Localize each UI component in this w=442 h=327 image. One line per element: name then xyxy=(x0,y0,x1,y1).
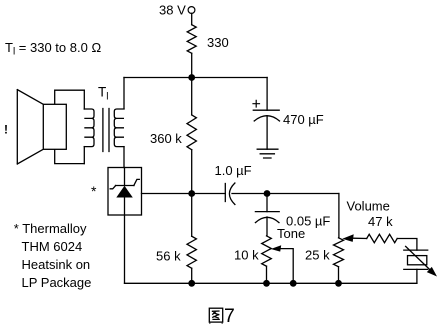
speaker cone xyxy=(17,90,43,164)
resistor 47k xyxy=(367,234,398,242)
zener diode D1 right wing xyxy=(134,179,140,185)
plus sign of C1 xyxy=(253,100,260,107)
wire C3 to tone pot xyxy=(266,217,268,236)
node rail tone pot xyxy=(263,280,270,287)
wire corner down to volume pot 25k xyxy=(338,194,340,238)
node mid junction xyxy=(188,190,195,197)
cartridge XTAL bottom plate xyxy=(404,268,428,270)
transformer T1 core xyxy=(103,109,109,152)
svg-text:Volume: Volume xyxy=(347,199,390,214)
amplifier package box U1 xyxy=(108,168,142,216)
wire 25k wiper to R47k xyxy=(353,237,367,239)
svg-text:LP Package: LP Package xyxy=(22,275,92,290)
transformer T1 secondary winding xyxy=(114,109,124,147)
svg-text:38 V: 38 V xyxy=(159,3,186,18)
cartridge arrowhead xyxy=(427,267,437,277)
wire down to C3 xyxy=(266,194,268,212)
resistor 56k xyxy=(187,236,196,268)
svg-text:Tl: Tl xyxy=(98,85,108,103)
svg-text:360 k: 360 k xyxy=(150,131,182,146)
wire C2 to node xyxy=(232,193,267,195)
svg-text:* Thermalloy: * Thermalloy xyxy=(14,221,87,236)
transformer T1 primary lead top xyxy=(83,90,85,109)
transformer T1 primary lead bottom xyxy=(83,147,85,164)
node rail volume pot xyxy=(335,280,342,287)
capacitor C2 1.0uF plate xyxy=(224,184,226,202)
node rail tone wiper xyxy=(290,280,297,287)
wire rail corner down to transformer secondary xyxy=(123,78,125,109)
svg-text:THM 6024: THM 6024 xyxy=(22,239,83,254)
wire node to volume corner xyxy=(267,193,339,195)
transformer T1 primary winding xyxy=(84,109,94,147)
cartridge variable arrow xyxy=(406,246,433,272)
wire terminal to R330 xyxy=(191,13,193,24)
wire loop speaker to transformer xyxy=(55,90,85,163)
node top junction xyxy=(188,74,195,81)
svg-text:Tone: Tone xyxy=(277,226,305,241)
wire mid line box to node xyxy=(142,193,192,195)
svg-text:330: 330 xyxy=(207,35,229,50)
svg-text:25 k: 25 k xyxy=(305,248,330,263)
capacitor C3 0.05uF plate xyxy=(255,211,279,213)
wire cartridge to rail xyxy=(416,269,418,283)
wire C1 to ground xyxy=(266,116,268,149)
speaker driver rectangle xyxy=(43,104,66,149)
wire mid node down to R56k xyxy=(191,194,193,237)
wire through box top xyxy=(124,168,126,186)
svg-text:56 k: 56 k xyxy=(156,249,181,264)
resistor 360k xyxy=(187,115,196,150)
wire R360k to mid node xyxy=(191,150,193,194)
wire node to R360k xyxy=(191,78,193,115)
potentiometer volume 25k xyxy=(334,238,344,267)
tone wiper arrowhead xyxy=(271,245,281,251)
volume wiper arrowhead xyxy=(342,234,353,242)
wire tone pot to rail xyxy=(266,266,268,283)
cartridge XTAL body xyxy=(408,256,427,265)
capacitor C2 1.0uF curved plate xyxy=(229,183,235,205)
zener diode D1 triangle xyxy=(116,186,133,198)
svg-text:!: ! xyxy=(4,123,8,137)
wire box bottom to ground rail xyxy=(124,198,126,284)
node 38V supply terminal xyxy=(188,7,195,14)
wire top rail xyxy=(124,77,267,79)
node after C2 xyxy=(264,190,271,197)
wire rail to C1 470uF xyxy=(266,78,268,111)
capacitor C3 0.05uF curved plate xyxy=(255,217,279,222)
ground symbol xyxy=(257,149,278,158)
resistor 330 xyxy=(187,25,196,54)
svg-text:1.0 µF: 1.0 µF xyxy=(215,163,252,178)
svg-text:10 k: 10 k xyxy=(234,248,259,263)
svg-text:*: * xyxy=(91,183,97,199)
svg-text:Tl = 330 to 8.0 Ω: Tl = 330 to 8.0 Ω xyxy=(5,40,101,58)
wire 25k to rail xyxy=(338,267,340,284)
zener diode D1 left wing xyxy=(110,186,116,189)
potentiometer tone 10k xyxy=(262,236,272,266)
svg-text:47 k: 47 k xyxy=(368,214,393,229)
zener diode D1 cathode bar xyxy=(116,185,135,187)
cartridge XTAL top plate xyxy=(404,249,428,251)
svg-text:470 µF: 470 µF xyxy=(283,112,324,127)
svg-text:Heatsink on: Heatsink on xyxy=(22,257,91,272)
node rail 56k xyxy=(188,280,195,287)
label figure caption 图7 xyxy=(209,308,222,323)
wire R56k to bottom rail xyxy=(191,268,193,283)
capacitor C1 470uF curved plate xyxy=(254,116,279,121)
wire R47k to cartridge xyxy=(397,239,417,251)
wire mid node to C2 xyxy=(192,193,226,195)
svg-text:7: 7 xyxy=(224,305,235,327)
wire transformer secondary to device box xyxy=(123,147,125,168)
wire tone wiper xyxy=(280,249,294,284)
capacitor C1 470uF plate xyxy=(253,109,279,111)
wire bottom ground rail xyxy=(125,282,417,284)
wire R330 to top rail node xyxy=(191,53,193,77)
